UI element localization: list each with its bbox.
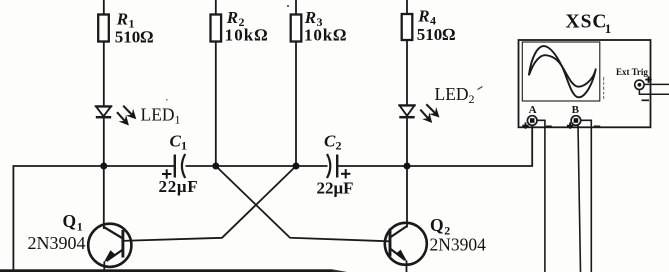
wire left rail	[13, 166, 174, 272]
label Q2	[430, 215, 487, 255]
resistor R4	[402, 14, 413, 40]
wire scope A minus down	[537, 120, 545, 272]
wire Q2 collector	[406, 166, 408, 228]
scan speck above R3	[287, 5, 289, 7]
scope trace 2	[529, 55, 595, 87]
svg-text:2N3904: 2N3904	[430, 235, 487, 255]
wire cross diagonal from R2 junction to Q2 base	[216, 166, 390, 241]
svg-text:1: 1	[181, 139, 187, 153]
wire cross diagonal from R3 junction to Q1 base	[123, 166, 296, 241]
svg-text:LED: LED	[141, 105, 175, 125]
svg-text:C: C	[324, 132, 336, 151]
label LED1	[141, 105, 181, 127]
label Q1	[28, 211, 86, 253]
wire scope B minus down	[581, 120, 592, 272]
oscilloscope XSC1 box	[519, 40, 651, 127]
svg-text:2: 2	[336, 139, 342, 153]
wire R1 to LED1	[103, 42, 105, 106]
wire Q1 collector	[103, 166, 105, 229]
label C2	[317, 132, 354, 198]
wire C1 to C2	[186, 165, 328, 167]
LED2 emission arrows	[420, 104, 439, 123]
scan speck near LED2	[478, 87, 483, 90]
label R1	[115, 10, 154, 47]
wire top stub R3	[295, 0, 297, 15]
label LED2	[435, 84, 475, 106]
resistor R1	[98, 15, 109, 42]
wire R2 to bus	[215, 42, 217, 167]
svg-text:R: R	[417, 7, 429, 26]
wire top stub R4	[406, 0, 408, 14]
svg-text:1: 1	[605, 21, 612, 36]
svg-text:10kΩ: 10kΩ	[304, 26, 347, 45]
label C1	[159, 132, 199, 197]
LED1 emission arrows	[117, 106, 136, 126]
svg-text:22μF: 22μF	[317, 179, 354, 198]
svg-text:A: A	[529, 104, 537, 116]
svg-text:R: R	[304, 8, 316, 27]
scope terminal A	[527, 116, 551, 127]
svg-text:510Ω: 510Ω	[417, 25, 456, 44]
wire C2 to scope A	[338, 125, 533, 166]
svg-text:B: B	[572, 104, 580, 116]
wire LED1 to bus	[103, 119, 105, 167]
svg-text:LED: LED	[435, 84, 469, 104]
label R2	[225, 8, 269, 45]
label XSC1	[566, 12, 612, 37]
svg-text:1: 1	[175, 113, 181, 127]
resistor R2	[211, 15, 222, 42]
svg-text:Ext Trig: Ext Trig	[616, 67, 648, 77]
oscilloscope display	[522, 42, 600, 101]
scope terminal B	[571, 116, 600, 127]
node junction dot at R2 column	[212, 163, 219, 170]
label R4	[417, 7, 456, 45]
node junction dot at R4 column	[404, 163, 411, 170]
scan speck left of C1	[166, 99, 168, 101]
node junction dot at LED1 column	[100, 163, 107, 170]
svg-text:22μF: 22μF	[159, 177, 199, 196]
wire R4 to LED2	[406, 40, 408, 105]
svg-text:2N3904: 2N3904	[28, 233, 86, 253]
wire LED2 to bus	[406, 119, 408, 167]
label Ext Trig plus	[645, 76, 651, 82]
scope trace 1	[529, 46, 596, 97]
wire R3 to bus	[295, 42, 297, 167]
LED LED2	[398, 105, 415, 117]
svg-text:Q: Q	[63, 211, 77, 231]
node junction dot at R3 column	[293, 163, 300, 170]
wire top stub R1	[103, 0, 105, 15]
capacitor C1	[175, 154, 185, 178]
capacitor C2	[327, 154, 337, 178]
scope graticule micro text	[603, 77, 604, 99]
svg-text:XSC: XSC	[566, 12, 608, 33]
Ext Trig terminal	[635, 80, 669, 100]
wire scope B plus down	[578, 125, 581, 272]
svg-text:510Ω: 510Ω	[115, 28, 154, 47]
svg-text:10kΩ: 10kΩ	[225, 26, 269, 45]
label A plus	[522, 122, 528, 128]
wire top stub R2	[215, 0, 217, 15]
svg-text:R: R	[226, 8, 238, 27]
svg-text:1: 1	[77, 220, 83, 234]
transistor Q1	[88, 224, 131, 272]
svg-text:C: C	[170, 132, 182, 151]
scan artifact bottom band	[0, 269, 332, 272]
LED LED1	[95, 106, 112, 117]
svg-text:2: 2	[469, 92, 475, 106]
svg-text:R: R	[116, 10, 128, 29]
svg-text:Q: Q	[430, 215, 444, 235]
label B plus	[567, 122, 573, 128]
resistor R3	[291, 15, 302, 42]
label R3	[304, 8, 347, 45]
transistor Q2	[385, 223, 427, 272]
